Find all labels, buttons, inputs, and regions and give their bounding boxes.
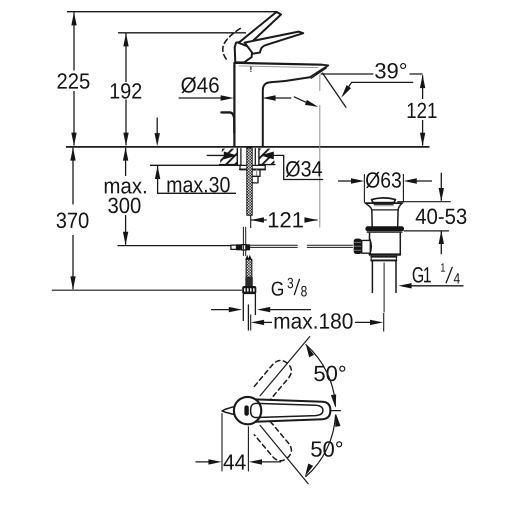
top view cartridge mark [244,405,248,415]
faucet aerator inner line [311,68,326,78]
dimension 192 vertical line [125,34,127,146]
dimension Ø46 left arrow line [179,97,223,99]
label G1 [413,267,431,283]
threaded rod [247,148,252,215]
wire Ø63 extension stubs [364,174,403,203]
faucet pivot block [235,41,253,62]
wire aerator vertical reference [319,75,321,228]
hose braided section [246,259,252,277]
top view handle inner [251,403,323,417]
faucet lever hidden dashes [223,29,240,61]
arrow max30 up below line [155,166,160,179]
hose braid dark segment [245,277,253,286]
cross fitting clamp [231,245,237,249]
waste centerline [383,263,385,312]
wire line at 370 bottom [52,289,242,291]
waste flange top [365,202,402,204]
supply rod line left [118,245,231,247]
wire max30 leader drop [158,166,236,193]
dimension max300 vertical line [125,148,127,245]
deck cross-section hatched right [259,149,275,165]
waste flange sides [365,203,402,226]
waste knob knurled [354,239,362,254]
faucet pull-rod hook [221,112,234,133]
label 1 sup [441,263,445,271]
deck cross-section hatched left [220,149,238,165]
faucet hidden cartridge dash [250,67,252,72]
waste plug cap [372,198,396,203]
label 40-53 [416,209,467,225]
waste flange inner gray [375,205,394,207]
top view dashed handle lower [254,421,295,464]
label 50deg lower [311,441,342,457]
faucet lever horizontal blade [245,32,304,54]
G3/8 tube [243,294,255,330]
waste body bottom [370,253,400,255]
waste knob stem [362,240,371,253]
wire flow angle arc [294,97,315,106]
faucet spout underside and front edge [263,77,310,146]
wire 39deg leader [343,82,413,95]
label 121 horizontal [269,212,303,227]
label 370 [57,213,89,229]
top view handle outer [255,399,330,421]
pull rod tube through fitting [243,227,245,255]
faucet shank walls [241,149,255,165]
waste flange bottom line [372,209,398,211]
top view body circle [234,397,261,424]
label max.30 [168,177,230,193]
wire 50deg ray lower [260,425,308,483]
label 300 [108,198,140,214]
dimension 40-53 [397,202,451,231]
label O63 [366,172,401,188]
waste body sides [370,233,401,254]
arrow 225 up [71,12,76,25]
arrow 192 up [123,33,128,46]
label 3 sup [287,278,293,289]
arrow max30 down at deck [155,133,160,146]
dimension max30 upper tick [156,118,158,134]
faucet lever raised blade [239,12,281,46]
fraction slash G1-4 [446,267,452,283]
waste plug band [374,203,393,205]
label 4 sub [454,273,460,283]
fraction slash G3-8 [294,279,299,295]
waste tailpipe [372,261,396,292]
arrow 370 up [70,147,75,160]
label max. [105,182,146,194]
arrow max300 down [123,232,128,245]
dimension Ø63 [338,180,352,182]
waste lower flange [371,257,396,261]
label 44 [223,454,245,469]
hose crimp zigzag [245,255,252,260]
wire flow diagonal 39deg [322,73,346,108]
arrow max300 up [123,147,128,160]
faucet body left edge and top [234,63,321,146]
actuating rod right double line [250,245,352,247]
dimension 121 horizontal [251,219,318,221]
label O34 [286,161,322,177]
label O46 [181,77,218,93]
dimension max180 [250,315,252,331]
dimension Ø34 right arrow over hatch [261,151,274,159]
label max.180 [275,313,353,329]
faucet spout nose [310,65,329,78]
cross fitting center [242,245,247,250]
dimension 121 vertical line [422,75,424,145]
wire 50deg arc upper [306,345,336,406]
mounting nut step2 [252,176,258,183]
top view dashed handle upper [254,357,295,400]
dimension Ø34 left arrow over hatch [207,154,226,156]
hose nut [242,286,256,294]
arrow 192 down [123,133,128,146]
arrow 225 down [71,133,76,146]
top view spout tip [222,407,234,415]
wire handle tip tick [330,410,340,412]
node deck line [66,146,430,148]
label 8 sub [301,286,307,297]
dimension 44 extension lines [222,414,248,472]
dimension G1 1/4 leader [398,283,411,288]
arrow 370 down [70,276,75,289]
dimension Ø34 leader underline [273,155,323,179]
label 121 vertical [408,103,437,118]
dimension Ø46 right arrow [262,95,275,100]
label 192 [111,83,142,99]
deck hole edges [237,149,259,165]
dimension G3/8 arrows [211,309,230,311]
dimension 44 arrows [196,461,210,463]
wire extension line 192 level [118,32,246,34]
wire 50deg ray upper [260,337,310,396]
wire 50deg arc lower [306,415,336,476]
wire 39deg baseline [321,73,423,75]
label 50deg upper [314,366,345,382]
dimension 225 vertical line [73,13,75,146]
label 39deg [375,63,406,79]
label 225 [58,73,90,89]
cross fitting dark block right [246,244,250,250]
wire max30 deck bottom line [150,164,242,166]
mounting nut step1 [252,170,260,177]
label G of G3-8 [272,282,283,296]
deck bottom edges [220,164,275,166]
faucet top shadow line [239,66,318,68]
dimension 370 vertical line [72,148,74,289]
wire extension line lever tip level [67,11,277,13]
faucet shank flange [240,165,265,169]
cross fitting dark block left [237,244,242,250]
waste o-ring [365,226,404,231]
